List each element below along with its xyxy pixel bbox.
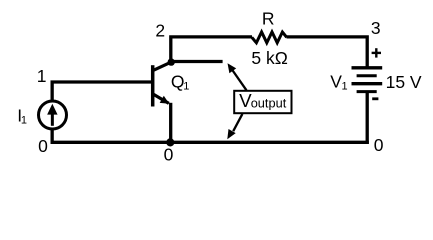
wire right vertical bottom: [366, 92, 369, 144]
label I1: [17, 106, 27, 127]
wire collector vertical and top rail left: [171, 37, 252, 64]
svg-text:1: 1: [342, 80, 348, 92]
plus sign battery: [372, 48, 381, 57]
svg-text:0: 0: [38, 136, 48, 156]
svg-text:V: V: [330, 71, 342, 91]
junction dot collector: [168, 58, 175, 65]
svg-text:0: 0: [374, 135, 384, 155]
wire bottom rail: [51, 141, 369, 144]
svg-text:1: 1: [37, 66, 47, 86]
current source I1: [39, 101, 67, 129]
wire top rail right and right vertical to battery: [287, 37, 368, 68]
wire emitter vertical: [169, 103, 172, 143]
resistor R zigzag: [252, 32, 287, 43]
battery V1: [352, 68, 383, 92]
minus sign battery: [372, 97, 378, 100]
svg-text:5 kΩ: 5 kΩ: [251, 48, 287, 68]
wire collector stub: [171, 60, 223, 63]
junction dot emitter to bottom rail: [166, 138, 174, 146]
label V1: [330, 71, 347, 92]
Voutput box: [234, 91, 291, 113]
label Voutput text: [239, 90, 287, 111]
svg-text:15 V: 15 V: [386, 72, 422, 92]
Voutput arrow lower: [227, 114, 242, 139]
svg-text:1: 1: [21, 114, 27, 126]
svg-text:3: 3: [371, 18, 381, 38]
wire node1 horizontal and left vertical top: [52, 82, 153, 101]
Voutput arrow upper: [228, 63, 247, 90]
transistor Q1: [153, 62, 172, 106]
label Q1: [171, 71, 190, 92]
wire left vertical bottom: [51, 129, 54, 144]
svg-text:R: R: [262, 9, 275, 29]
svg-text:0: 0: [164, 145, 174, 165]
svg-text:output: output: [251, 95, 287, 110]
svg-text:2: 2: [155, 21, 165, 41]
svg-text:1: 1: [183, 80, 189, 92]
